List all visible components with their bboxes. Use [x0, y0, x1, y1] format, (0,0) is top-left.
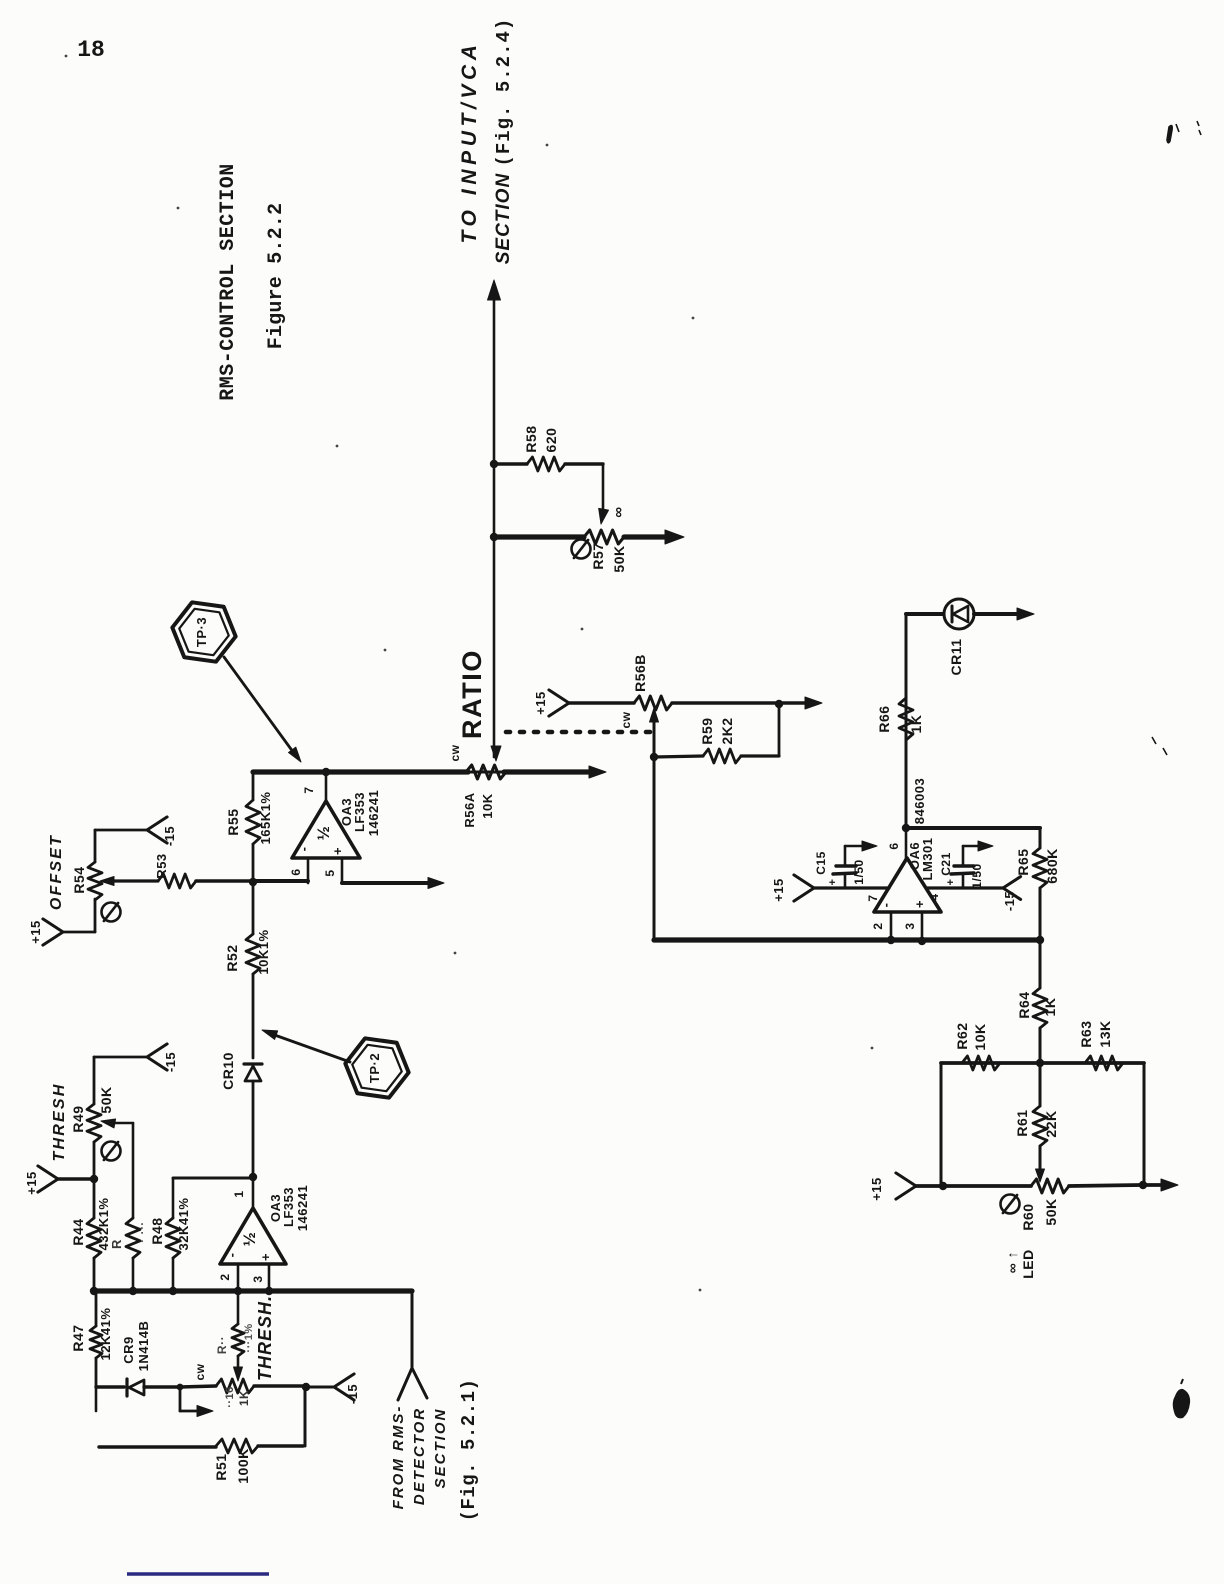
svg-text:7: 7 — [302, 786, 316, 793]
node junction R66 bottom / OA6 pin6 — [902, 824, 910, 832]
wire OA3 pin7 output bus — [253, 769, 468, 774]
wire R54 top to -15 — [95, 829, 147, 832]
svg-text:CR10: CR10 — [220, 1052, 236, 1090]
svg-text:CR11: CR11 — [948, 638, 964, 675]
faint specks — [65, 55, 68, 58]
stray ink blob right — [1173, 1389, 1190, 1419]
svg-text:R62: R62 — [954, 1022, 970, 1049]
svg-text:THRESH: THRESH — [51, 1083, 68, 1162]
svg-text:SECTION: SECTION — [432, 1408, 449, 1489]
svg-text:2K2: 2K2 — [719, 717, 735, 744]
svg-text:Figure 5.2.2: Figure 5.2.2 — [265, 203, 288, 349]
svg-text:SECTION (Fig. 5.2.4): SECTION (Fig. 5.2.4) — [493, 18, 515, 265]
svg-text:-: - — [224, 1253, 239, 1258]
wire OA6 inputs bottom bus — [654, 937, 1040, 942]
node junction R65 bottom — [1036, 936, 1044, 944]
svg-text:6: 6 — [887, 842, 901, 849]
svg-text:2: 2 — [218, 1273, 232, 1280]
svg-text:18: 18 — [77, 37, 105, 63]
svg-text:(Fig. 5.2.1): (Fig. 5.2.1) — [458, 1379, 480, 1522]
svg-text:+15: +15 — [24, 1171, 39, 1195]
trimmer symbol R57 — [572, 540, 591, 559]
wire R49 top to -15 — [94, 1056, 147, 1059]
resistor R48 32K4 1% — [172, 1178, 175, 1218]
node junction pin2 (OA6) — [887, 936, 895, 944]
svg-text:R48: R48 — [149, 1217, 165, 1244]
svg-text:2: 2 — [871, 922, 885, 929]
svg-text:+: + — [258, 1253, 273, 1261]
wire R48 top to CR10 node — [173, 1177, 253, 1180]
svg-text:R52: R52 — [224, 944, 240, 971]
svg-text:C15: C15 — [814, 851, 828, 875]
pin7 lead and +15 (OA6) — [814, 886, 889, 889]
svg-text:+15: +15 — [533, 691, 548, 715]
resistor R65 680K — [1039, 828, 1042, 848]
svg-text:R58: R58 — [523, 425, 539, 452]
svg-text:+15: +15 — [771, 878, 786, 902]
svg-text:+: + — [912, 900, 927, 908]
op-amp OA3 second half (pins 7,6,5) — [325, 773, 328, 801]
svg-text:∞: ∞ — [610, 506, 627, 517]
node junction R59 top — [775, 700, 783, 708]
svg-text:R51: R51 — [213, 1453, 229, 1480]
resistor R55 165K 1% — [246, 800, 260, 844]
pin4 lead and -15 (OA6) — [927, 886, 1003, 889]
svg-text:R49: R49 — [70, 1105, 86, 1132]
R61 wiper arrow onto R60 — [1036, 1169, 1045, 1182]
svg-text:R56A: R56A — [462, 792, 477, 827]
node junction feedback R55/R52 — [249, 878, 257, 886]
svg-text:+15: +15 — [869, 1177, 884, 1201]
svg-text:620: 620 — [543, 428, 559, 453]
wire pin5 to common arrow — [342, 881, 428, 885]
svg-text:1K: 1K — [908, 715, 924, 734]
node junction R48 on bus — [169, 1287, 177, 1295]
trimmer symbol R49 — [102, 1142, 121, 1161]
svg-text:146241: 146241 — [366, 790, 381, 836]
svg-text:-15: -15 — [163, 1052, 178, 1072]
op-amp OA6 LM301 (pins 6,7,4,2,3) — [905, 828, 908, 858]
potentiometer R57 50K — [494, 534, 584, 539]
inverting-input bus wire — [94, 1288, 412, 1293]
svg-text:LED: LED — [1020, 1249, 1036, 1279]
node junction R49/R44 — [90, 1175, 98, 1183]
svg-text:THRESH.: THRESH. — [255, 1295, 275, 1381]
power -15 fork (offset) — [147, 817, 167, 843]
svg-text:12K41%: 12K41% — [98, 1308, 113, 1361]
R49 wiper arrow — [101, 1119, 116, 1128]
node junction R59 tap — [650, 753, 658, 761]
resistor R47 12K4 1% — [95, 1291, 98, 1326]
ground branch arrow near CR9 — [179, 1387, 182, 1411]
divider top wire R62/R63 — [941, 1061, 1144, 1065]
svg-text:cw: cw — [448, 744, 462, 761]
resistor R45 (smudged) — [126, 1218, 140, 1258]
wire inverting input to feedback node — [253, 879, 308, 883]
node junction R45 on bus — [129, 1287, 137, 1295]
stray ink mark top right — [1167, 124, 1179, 143]
dashed link R56A wiper to R56B wiper — [506, 730, 650, 735]
svg-text:1K: 1K — [237, 1390, 251, 1406]
leader arrow from TP-2 — [269, 1033, 350, 1062]
svg-text:RATIO: RATIO — [457, 649, 487, 739]
svg-text:13K: 13K — [1097, 1020, 1113, 1047]
wire LED branch corner — [905, 614, 908, 828]
svg-text:R65: R65 — [1015, 848, 1031, 875]
diode CR10 — [244, 1062, 262, 1065]
svg-text:TP·3: TP·3 — [194, 617, 209, 647]
diode CR9 — [125, 1379, 128, 1396]
svg-text:-: - — [296, 847, 311, 852]
node junction pin2 on bus — [234, 1287, 242, 1295]
potentiometer R60 50K with +15 — [896, 1173, 916, 1199]
capacitor C21 1/50 — [962, 875, 965, 888]
resistor R64 1K — [1039, 940, 1042, 988]
node junction R58 tap — [490, 460, 498, 468]
svg-text:50K: 50K — [611, 545, 627, 572]
svg-text:TO INPUT/VCA: TO INPUT/VCA — [458, 41, 481, 244]
potentiometer R49 THRESH 50K — [87, 1104, 101, 1142]
svg-text:-15: -15 — [1002, 891, 1017, 911]
power +15 fork (R56B) — [549, 690, 569, 716]
svg-text:-: - — [878, 903, 893, 908]
test point TP-3 hexagon — [172, 602, 235, 661]
stub below R47 node — [95, 1387, 98, 1411]
node junction R47 top — [95, 1290, 97, 1292]
svg-text:6: 6 — [289, 868, 303, 875]
svg-text:∞ ↑: ∞ ↑ — [1004, 1251, 1020, 1273]
svg-text:10K: 10K — [972, 1023, 988, 1050]
power -15 fork (thresh) — [147, 1044, 167, 1070]
svg-text:+: + — [330, 847, 345, 855]
node junction R50/-15/R51 — [302, 1383, 310, 1391]
wire +15 to R49 bottom node — [58, 1177, 94, 1180]
trimmer symbol R54 — [102, 903, 121, 922]
node junction at OA3 output — [322, 768, 330, 776]
potentiometer R56B — [569, 701, 634, 705]
resistor R46 to THRESH wiper — [237, 1291, 240, 1324]
svg-text:C21: C21 — [939, 852, 953, 876]
svg-text:FROM RMS-: FROM RMS- — [390, 1405, 407, 1510]
R54 wiper arrow — [100, 877, 114, 886]
svg-text:R56B: R56B — [632, 654, 648, 692]
svg-text:146241: 146241 — [295, 1185, 310, 1231]
wire output bus down to R55 — [252, 772, 255, 800]
svg-text:LM301: LM301 — [920, 838, 935, 881]
op-amp OA3 first half (pins 1,2,3) — [252, 1177, 255, 1208]
test point TP-2 hexagon — [345, 1038, 408, 1097]
svg-text:+15: +15 — [28, 920, 43, 944]
svg-text:1/50: 1/50 — [970, 863, 984, 888]
power +15 fork (OA6) — [794, 875, 814, 901]
svg-text:-15: -15 — [162, 826, 177, 846]
svg-text:7: 7 — [866, 894, 880, 901]
LED CR11 — [944, 599, 974, 629]
svg-text:RMS-CONTROL SECTION: RMS-CONTROL SECTION — [217, 163, 240, 401]
svg-text:R60: R60 — [1020, 1203, 1036, 1230]
svg-text:LF353: LF353 — [352, 792, 367, 832]
svg-text:·⋅·1%: ·⋅·1% — [243, 1323, 255, 1352]
node small junction at CR9/ground branch — [177, 1384, 184, 1391]
node junction left leg on R60 wire — [939, 1182, 947, 1190]
resistor R52 10K 1% — [252, 883, 255, 934]
power -15 fork (R50) — [334, 1374, 354, 1400]
resistor R61 22K — [1039, 1063, 1042, 1106]
svg-text:cw: cw — [619, 711, 633, 728]
svg-text:R··: R·· — [215, 1336, 229, 1354]
svg-text:R59: R59 — [699, 717, 715, 744]
svg-text:165K1%: 165K1% — [258, 792, 273, 845]
svg-text:1N414B: 1N414B — [136, 1321, 151, 1372]
svg-text:50K: 50K — [98, 1086, 114, 1113]
resistor R63 13K — [1085, 1056, 1128, 1070]
svg-text:680K: 680K — [1044, 848, 1060, 883]
power -15 fork (OA6) — [1003, 877, 1021, 900]
trimmer symbol R60 — [1001, 1195, 1020, 1214]
resistor R58 — [494, 462, 527, 465]
svg-text:1/50: 1/50 — [852, 859, 866, 884]
resistor R62 10K — [962, 1056, 1005, 1070]
svg-text:DETECTOR: DETECTOR — [411, 1407, 428, 1505]
svg-text:846003: 846003 — [912, 778, 927, 824]
svg-text:R64: R64 — [1016, 991, 1032, 1018]
svg-text:R47: R47 — [70, 1324, 86, 1351]
svg-text:½: ½ — [240, 1232, 259, 1247]
svg-text:··16: ··16 — [224, 1386, 236, 1408]
svg-text:3: 3 — [903, 922, 917, 929]
svg-text:cw: cw — [193, 1363, 207, 1380]
wire bus corner down to RMS input — [411, 1291, 414, 1368]
svg-text:R57: R57 — [590, 542, 606, 569]
potentiometer R50 1K THRESH — [96, 1385, 124, 1388]
resistor R66 1K — [899, 698, 913, 740]
svg-text:OFFSET: OFFSET — [48, 834, 65, 910]
svg-text:· ·⋅·: · ·⋅· — [135, 1221, 149, 1243]
svg-text:+: + — [827, 879, 839, 886]
svg-text:R44: R44 — [70, 1218, 86, 1245]
wire R58 to R57 wiper — [602, 464, 605, 516]
svg-text:32K41%: 32K41% — [176, 1198, 191, 1251]
resistor R53 — [158, 874, 201, 888]
node junction R57 tap — [490, 533, 498, 541]
svg-text:50K: 50K — [1043, 1198, 1059, 1225]
right divider leg — [1143, 1063, 1146, 1185]
resistor R51 100K — [99, 1445, 216, 1448]
R56B wiper arrow — [650, 708, 659, 722]
svg-text:4: 4 — [927, 893, 941, 900]
power +15 fork (offset) — [43, 919, 63, 945]
leader arrow from TP-3 — [224, 657, 296, 756]
svg-text:1K: 1K — [1042, 998, 1058, 1017]
node junction right leg on R60 wire — [1139, 1181, 1147, 1189]
svg-text:100K: 100K — [235, 1448, 251, 1483]
svg-text:10K: 10K — [480, 793, 495, 818]
power +15 fork (thresh) — [38, 1166, 58, 1192]
wiper arrow of R56A — [491, 746, 501, 761]
svg-text:TP·2: TP·2 — [367, 1053, 382, 1083]
svg-text:R63: R63 — [1078, 1020, 1094, 1047]
svg-text:R54: R54 — [71, 866, 87, 893]
capacitor C15 1/50 — [844, 875, 847, 888]
svg-text:+: + — [945, 879, 957, 886]
svg-text:5: 5 — [323, 869, 337, 876]
svg-text:R55: R55 — [225, 808, 241, 835]
svg-text:R61: R61 — [1014, 1109, 1030, 1136]
wire to -15 (R50) — [306, 1386, 334, 1389]
svg-text:LF353: LF353 — [281, 1187, 296, 1227]
potentiometer R56A 10K — [466, 765, 512, 779]
svg-text:½: ½ — [314, 826, 333, 841]
wire OA6 top to R65 — [906, 826, 1040, 830]
node junction pin3 (OA6) — [918, 937, 926, 945]
potentiometer R54 OFFSET — [88, 862, 102, 900]
svg-text:22K: 22K — [1043, 1110, 1059, 1137]
svg-text:R53: R53 — [154, 853, 169, 878]
svg-text:3: 3 — [251, 1275, 265, 1282]
blue underline scan mark bottom left — [127, 1572, 269, 1575]
wire R54 bottom to +15 — [63, 931, 95, 934]
svg-text:1: 1 — [232, 1190, 246, 1197]
svg-text:R: R — [109, 1239, 124, 1249]
resistor R44 432K 1% — [93, 1179, 96, 1218]
input fork FROM RMS-DETECTOR — [398, 1368, 427, 1400]
wire to INPUT/VCA with arrow up — [488, 280, 501, 300]
svg-text:10K1%: 10K1% — [256, 929, 271, 974]
svg-text:CR9: CR9 — [121, 1336, 136, 1364]
resistor R59 2K2 — [654, 756, 703, 757]
svg-text:-15: -15 — [345, 1384, 360, 1404]
node junction CR10/R48/pin1 — [249, 1173, 257, 1181]
node junction R64/R61 — [1036, 1059, 1044, 1067]
svg-text:R66: R66 — [876, 705, 892, 732]
node junction pin3 on bus — [265, 1287, 273, 1295]
left divider leg — [940, 1063, 943, 1186]
node junction R44 on bus — [90, 1287, 98, 1295]
